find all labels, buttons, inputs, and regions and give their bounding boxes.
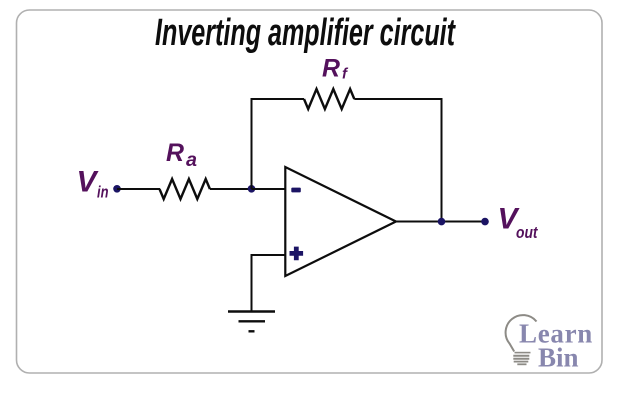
wire node A to op-amp inverting input	[252, 188, 286, 190]
node A inverting input junction	[248, 185, 256, 193]
node Vin terminal	[113, 185, 121, 193]
wire Ra to node A	[210, 188, 252, 190]
resistor Ra	[160, 179, 210, 199]
ground	[228, 312, 275, 332]
wire Vin to Ra	[117, 188, 160, 190]
resistor Rf	[304, 89, 354, 109]
svg-text:R: R	[166, 139, 184, 167]
LearnBin logo	[506, 315, 593, 372]
svg-text:Inverting amplifier circuit: Inverting amplifier circuit	[155, 12, 456, 54]
svg-text:R: R	[322, 55, 340, 83]
label Vout	[498, 203, 539, 242]
wire feedback right vertical	[441, 99, 443, 222]
node output junction	[438, 218, 446, 226]
wire op-amp output	[396, 221, 485, 223]
node Vout terminal	[481, 218, 489, 226]
wire op-amp noninverting input	[252, 254, 286, 256]
svg-text:Bin: Bin	[538, 342, 579, 372]
label Rf	[322, 55, 349, 83]
wire feedback top left	[251, 98, 305, 100]
label Ra	[166, 139, 197, 171]
svg-text:a: a	[186, 150, 197, 171]
wire feedback top right	[354, 98, 442, 100]
wire noninverting input down to ground	[251, 254, 253, 312]
op-amp U1	[285, 167, 396, 276]
svg-text:out: out	[516, 223, 539, 242]
wire feedback left vertical	[251, 99, 253, 189]
label Vin	[77, 166, 109, 202]
svg-text:in: in	[97, 182, 109, 201]
